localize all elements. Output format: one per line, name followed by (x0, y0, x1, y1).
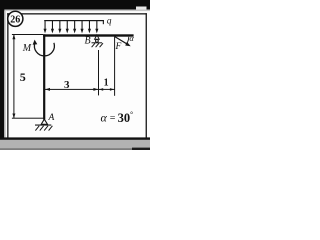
column (left vertical member) (43, 34, 45, 119)
scan bottom gray strip (0, 140, 150, 148)
dimension 5 top arrow (12, 34, 15, 39)
beam (top horizontal member) (43, 34, 134, 36)
svg-text:q: q (107, 17, 112, 27)
right end projection line (114, 37, 115, 96)
force F arrow line (115, 37, 128, 45)
scan bottom black rule (0, 137, 150, 140)
load arrow 7 (88, 21, 91, 34)
svg-text:26: 26 (10, 15, 20, 26)
svg-text:α: α (129, 33, 134, 43)
svg-text:=: = (110, 113, 116, 124)
support A hatching (35, 126, 52, 131)
support B roller circle (96, 40, 99, 43)
scan bottom edge dark (0, 148, 150, 150)
frame border right (146, 13, 147, 138)
load arrow 5 (73, 21, 76, 34)
paper background (0, 0, 150, 150)
scan top black band (0, 0, 150, 10)
support B roller triangle (95, 35, 100, 39)
load arrow 3 (58, 21, 61, 34)
angle alpha arc at beam end (127, 37, 129, 44)
svg-text:B: B (85, 35, 91, 46)
dimension 5 top tick (12, 34, 43, 35)
support A ground line (35, 125, 51, 126)
load arrow 1 (44, 21, 47, 34)
svg-text:30: 30 (118, 111, 131, 125)
scan top band white notch (136, 7, 147, 10)
svg-text:α: α (101, 111, 108, 125)
support B hatching (92, 43, 103, 47)
dimension 5 bottom arrow (12, 114, 15, 119)
dimension 5 vertical line (13, 35, 14, 118)
svg-text:A: A (48, 113, 55, 123)
dimension 1 left arrow (99, 88, 103, 91)
moment M arc (34, 43, 54, 56)
moment M arrowhead (33, 40, 38, 45)
force F arrowhead (125, 42, 131, 46)
dimension 3 right arrow (93, 88, 98, 91)
frame border left (7, 13, 8, 138)
svg-text:1: 1 (104, 78, 109, 89)
problem number circle 26 (8, 11, 23, 26)
distributed load top line (44, 20, 104, 21)
svg-text:5: 5 (20, 70, 26, 84)
svg-text:F: F (115, 42, 122, 52)
load arrow 2 (51, 21, 54, 34)
load arrow 8 (95, 21, 98, 34)
scan top band gray fringe (0, 10, 150, 12)
frame border top (7, 13, 147, 14)
svg-text:3: 3 (64, 79, 70, 91)
dimension 3 left arrow (45, 88, 50, 91)
load arrow 4 (66, 21, 69, 34)
node B projection line (98, 50, 99, 95)
support A pin triangle (41, 119, 47, 124)
load arrow 6 (81, 21, 84, 34)
support B ground line (92, 42, 103, 43)
svg-text:M: M (22, 43, 32, 54)
dimension 1 line (98, 89, 115, 90)
distributed load end tick (103, 20, 104, 24)
dimension 1 right arrow (110, 88, 114, 91)
svg-text:°: ° (130, 110, 133, 119)
dimension 5 bottom tick (12, 118, 44, 119)
scan left black bar (0, 0, 4, 138)
dimension 3 line (45, 89, 99, 90)
